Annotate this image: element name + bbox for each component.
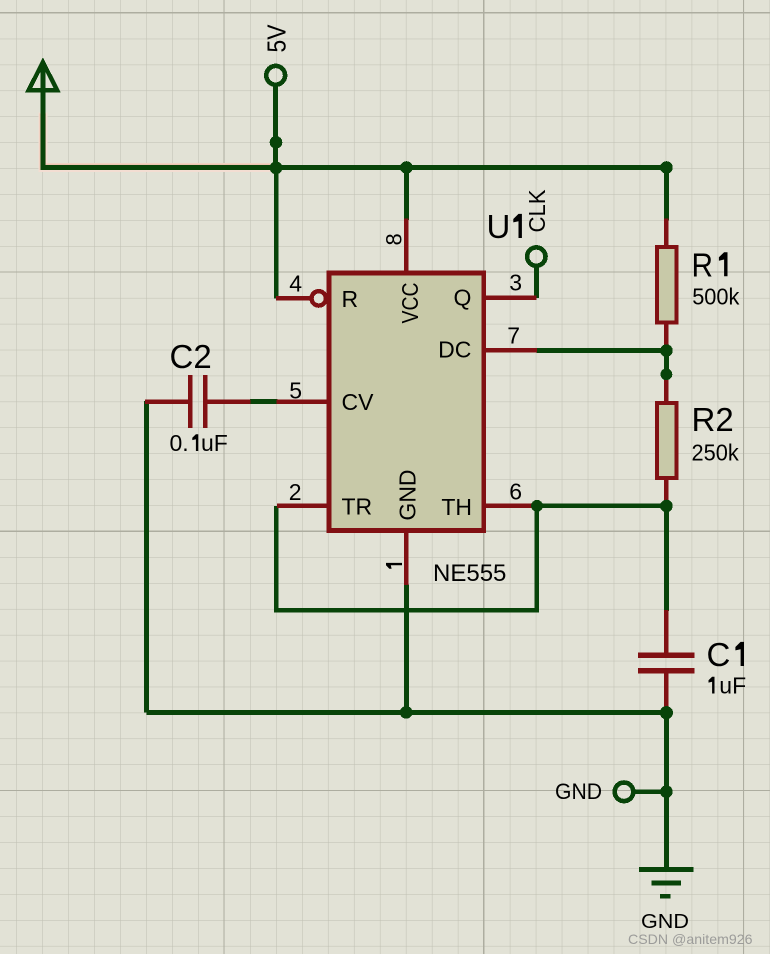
svg-text:GND: GND [395,469,421,520]
svg-text:uF: uF [201,430,228,456]
svg-text:DC: DC [438,337,471,363]
svg-text:3: 3 [509,269,522,295]
svg-text:250k: 250k [692,439,740,465]
svg-text:CSDN @anitem926: CSDN @anitem926 [628,931,753,947]
svg-text:R2: R2 [692,401,734,438]
svg-text:U: U [487,208,511,245]
svg-text:uF: uF [719,673,746,699]
svg-text:GND: GND [555,779,602,804]
svg-text:R: R [692,246,714,283]
svg-text:Q: Q [454,285,472,311]
svg-text:5: 5 [289,377,302,403]
svg-text:TH: TH [441,494,472,520]
svg-text:C: C [707,636,731,673]
svg-text:C2: C2 [170,338,212,375]
svg-text:TR: TR [342,494,373,520]
svg-text:8: 8 [382,233,407,245]
svg-text:0.: 0. [170,430,189,456]
svg-text:7: 7 [507,322,520,348]
svg-text:CV: CV [342,389,375,415]
svg-text:GND: GND [641,911,689,933]
svg-text:4: 4 [289,271,302,297]
svg-text:R: R [342,286,359,312]
svg-text:CLK: CLK [524,189,550,233]
svg-text:500k: 500k [692,284,740,310]
svg-text:6: 6 [509,478,522,504]
svg-text:VCC: VCC [397,283,423,324]
svg-text:2: 2 [289,479,302,505]
svg-text:NE555: NE555 [433,560,506,587]
svg-text:5V: 5V [262,24,292,53]
